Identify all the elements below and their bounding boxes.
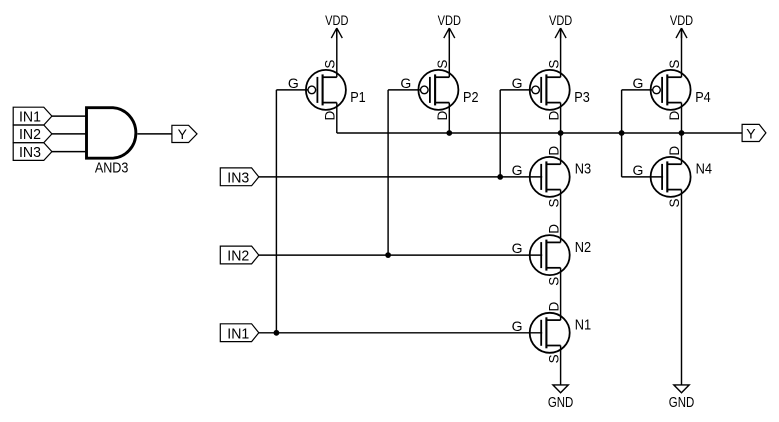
svg-text:AND3: AND3 [95,160,129,177]
svg-text:P4: P4 [695,90,711,106]
svg-text:N2: N2 [575,240,591,256]
svg-text:P3: P3 [574,90,590,106]
svg-text:Y: Y [178,126,188,142]
svg-text:IN3: IN3 [19,144,41,161]
svg-text:IN1: IN1 [227,326,249,342]
svg-text:IN2: IN2 [19,126,41,143]
svg-text:N4: N4 [696,162,712,178]
svg-text:N3: N3 [575,162,591,178]
svg-text:IN2: IN2 [227,249,249,265]
svg-text:N1: N1 [575,318,591,334]
svg-text:IN1: IN1 [19,108,41,125]
svg-text:Y: Y [746,125,756,141]
svg-text:P2: P2 [463,90,479,106]
svg-text:P1: P1 [350,90,366,106]
svg-text:IN3: IN3 [227,171,249,187]
